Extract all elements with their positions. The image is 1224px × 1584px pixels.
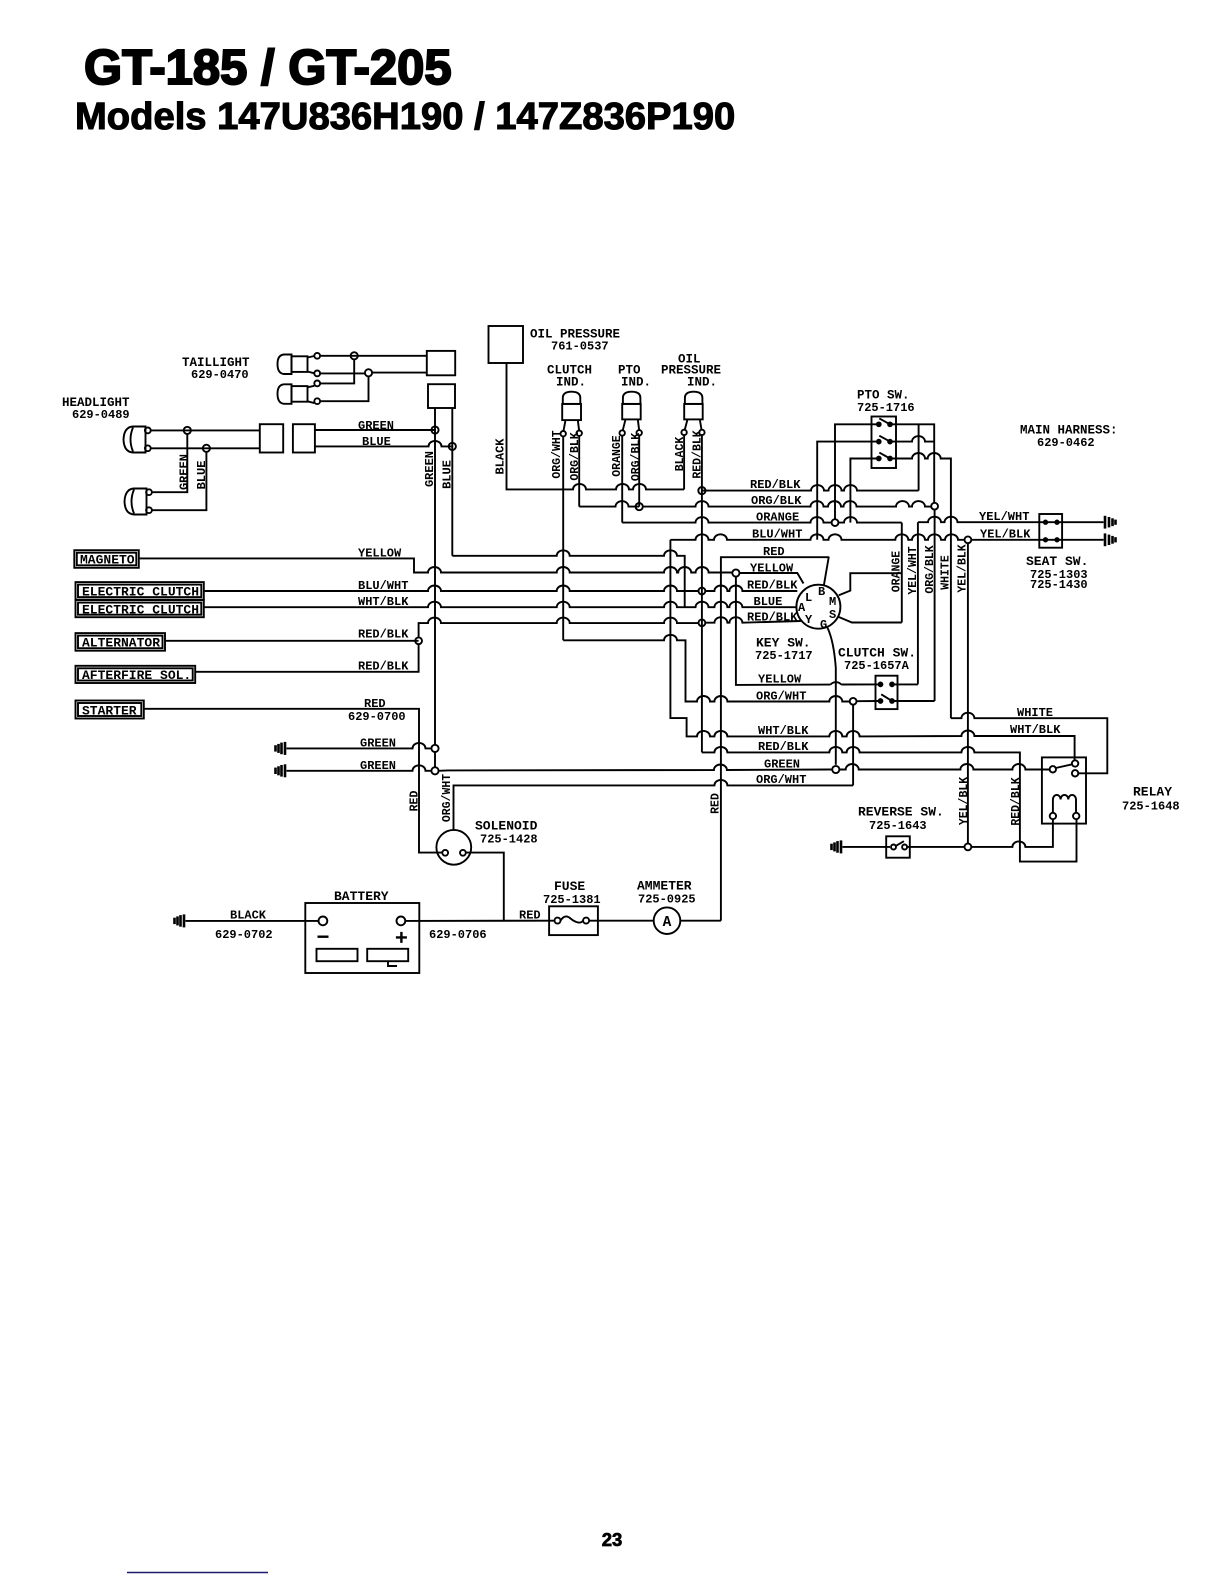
svg-text:RED/BLK: RED/BLK xyxy=(747,611,798,625)
battery minus sign xyxy=(318,936,329,938)
relay coil terminal right xyxy=(1073,813,1079,819)
lamp pto indicator xyxy=(618,364,651,390)
svg-text:A: A xyxy=(663,915,672,931)
bus BLU/WHT xyxy=(670,534,964,540)
wire red/blk riser to key bus xyxy=(419,618,699,638)
fuse box xyxy=(549,906,598,935)
wire blue feed vertical (taillight blue to blue bus) xyxy=(452,550,684,607)
wire GREEN 1 xyxy=(287,743,432,748)
taillight label xyxy=(182,356,250,382)
wire pto pole3 left to orange bus xyxy=(850,459,878,523)
wire GREEN vertical (taillight to green bus) xyxy=(434,408,436,767)
svg-text:ORG/BLK: ORG/BLK xyxy=(630,433,643,481)
lamp oil pressure indicator xyxy=(661,353,721,390)
svg-text:GREEN: GREEN xyxy=(178,454,192,490)
wire lamp1 right lead ORG/BLK xyxy=(578,436,580,507)
fuse label xyxy=(543,879,601,907)
ammeter label xyxy=(637,879,696,907)
wire RED/BLK lower bus (vert 702 to relay coil) xyxy=(702,747,1077,862)
svg-text:RELAY: RELAY xyxy=(1133,785,1172,800)
headlight lamp 1 xyxy=(124,427,146,453)
svg-text:RED/BLK: RED/BLK xyxy=(758,740,809,754)
relay coil xyxy=(1053,795,1076,813)
svg-text:629-0462: 629-0462 xyxy=(1037,436,1095,450)
wire ORG/WHT solenoid riser and lower bus xyxy=(454,780,854,830)
svg-text:BLUE: BLUE xyxy=(195,461,209,490)
wire battery plus to fuse xyxy=(405,920,554,922)
svg-text:RED/BLK: RED/BLK xyxy=(747,579,798,593)
connector plug green 2 xyxy=(276,764,286,777)
svg-text:23: 23 xyxy=(602,1529,623,1550)
clutch switch arm xyxy=(881,694,892,701)
svg-text:G: G xyxy=(820,618,827,632)
seat switch box xyxy=(1039,514,1062,548)
headlight label xyxy=(62,396,130,422)
svg-text:IND.: IND. xyxy=(687,376,717,390)
label BLACK vertical lamp3 xyxy=(674,437,687,472)
wire green drop to headlight 2 xyxy=(152,434,187,492)
wire BLACK to battery xyxy=(186,920,319,922)
svg-text:ORG/WHT: ORG/WHT xyxy=(756,773,806,787)
svg-text:SEAT SW.: SEAT SW. xyxy=(1026,554,1088,569)
wire lamp2 left lead ORANGE xyxy=(621,436,623,523)
pto switch pole 3 xyxy=(877,457,881,461)
solenoid body xyxy=(436,830,471,865)
ammeter xyxy=(654,907,681,934)
connector taillight box B xyxy=(428,384,455,408)
wire lamp3 left lead BLACK xyxy=(683,435,685,489)
svg-text:629-0702: 629-0702 xyxy=(215,928,273,942)
relay contact white xyxy=(1072,770,1078,776)
svg-text:725-1717: 725-1717 xyxy=(755,649,813,663)
relay coil terminal left xyxy=(1050,813,1056,819)
wire pto pole2 left to blu/wht bus xyxy=(817,442,879,540)
wire pto pole1 right xyxy=(890,424,934,503)
wire taillight bottom xyxy=(320,372,427,375)
afterfire sol box xyxy=(76,666,196,683)
wire YEL/WHT vertical (seat bus to clutch switch) xyxy=(917,522,919,684)
wire BLUE horizontal from headlight connector xyxy=(315,441,452,447)
svg-text:L: L xyxy=(805,591,812,605)
label RED/BLK vertical lamp3 xyxy=(691,430,704,478)
pto switch pole 2 xyxy=(877,440,881,444)
label ORANGE vertical xyxy=(611,435,624,477)
wire YEL/BLK bus to seat switch xyxy=(971,539,1103,541)
svg-text:ORANGE: ORANGE xyxy=(756,511,799,525)
svg-text:RED: RED xyxy=(519,909,541,923)
wire YEL/BLK vertical (seat bus to reverse switch) xyxy=(967,543,969,843)
label ORG/BLK vertical xyxy=(569,432,582,480)
wire BLU/WHT from electric clutch 1 xyxy=(204,586,699,591)
battery cell rect 2 xyxy=(367,949,408,961)
node taillight top tap xyxy=(351,352,358,359)
wire RED from starter xyxy=(144,709,443,853)
svg-text:M: M xyxy=(829,595,836,609)
svg-text:BLACK: BLACK xyxy=(674,437,687,472)
svg-text:ORG/WHT: ORG/WHT xyxy=(551,430,564,478)
svg-text:YEL/BLK: YEL/BLK xyxy=(957,544,970,592)
label GREEN xyxy=(358,419,394,433)
svg-text:B: B xyxy=(818,585,825,599)
svg-text:BLUE: BLUE xyxy=(362,435,391,449)
bus RED/BLK (lamp row) xyxy=(702,485,919,490)
svg-text:725-1657A: 725-1657A xyxy=(844,659,910,673)
wire fuse to ammeter xyxy=(589,920,654,922)
label BLUE xyxy=(362,435,391,449)
svg-text:S: S xyxy=(829,608,836,622)
bus ORANGE (lamp row) xyxy=(622,517,831,523)
svg-text:YELLOW: YELLOW xyxy=(358,546,402,560)
svg-text:RED/BLK: RED/BLK xyxy=(691,430,704,478)
label WHITE vertical xyxy=(939,555,952,590)
wire YEL/WHT bus to seat switch xyxy=(918,517,1104,523)
wire ORANGE vertical (orange bus to key M/S) xyxy=(901,523,903,623)
svg-text:RED/BLK: RED/BLK xyxy=(358,659,409,673)
svg-text:FUSE: FUSE xyxy=(554,879,585,894)
wire yellow bus to key L xyxy=(740,573,804,584)
wire reverse ground to switch xyxy=(843,846,891,848)
svg-text:RED/BLK: RED/BLK xyxy=(1010,777,1023,825)
battery cell rect 1 xyxy=(317,949,358,961)
wire RED/BLK from alternator xyxy=(165,640,419,642)
wire key M to orange vertical xyxy=(839,573,902,595)
electric clutch box 2 xyxy=(76,600,204,617)
alternator box xyxy=(76,633,166,651)
wire lamp3 right lead RED/BLK long vertical xyxy=(701,435,703,752)
node red/blk open junction xyxy=(699,588,706,595)
svg-text:ORG/BLK: ORG/BLK xyxy=(569,432,582,480)
svg-text:ORANGE: ORANGE xyxy=(611,435,624,477)
label GREEN vertical headlight xyxy=(178,454,192,490)
electric clutch box 1 xyxy=(76,582,204,600)
pto switch label xyxy=(857,389,915,416)
svg-text:Y: Y xyxy=(805,613,813,627)
wire taillight top xyxy=(320,355,427,357)
label ORG/WHT vertical xyxy=(551,430,564,478)
oil pressure sender box xyxy=(489,326,524,363)
label BLUE vertical xyxy=(441,460,455,489)
main harness label xyxy=(1020,424,1118,451)
connector plug reverse ground xyxy=(832,840,842,853)
svg-text:WHITE: WHITE xyxy=(1017,706,1053,720)
wire BLU/WHT vertical path to WHT/BLK bus xyxy=(670,540,1074,761)
svg-text:BLUE: BLUE xyxy=(441,460,455,489)
footer rule xyxy=(127,1572,268,1574)
svg-text:725-1648: 725-1648 xyxy=(1122,800,1180,814)
wire YELLOW vertical and bus to clutch xyxy=(736,577,879,685)
node yel/blk tap xyxy=(965,536,972,543)
connector plug yel/wht xyxy=(1105,516,1116,529)
connector headlight box A xyxy=(260,424,283,452)
svg-text:ORG/BLK: ORG/BLK xyxy=(924,545,937,593)
wire key G diagonal down xyxy=(827,628,835,765)
solenoid terminal left xyxy=(442,850,448,856)
label RED vertical starter xyxy=(408,791,421,812)
wire lamp2 right lead ORG/BLK xyxy=(638,436,640,507)
wire org/wht drop to lower bus xyxy=(852,705,854,786)
reverse switch label xyxy=(858,805,944,833)
node headlight green tap xyxy=(184,427,191,434)
wire BLACK from oil pressure box xyxy=(507,363,685,489)
wire key S to orange vertical xyxy=(838,617,902,623)
node blue junction xyxy=(449,443,456,450)
svg-text:725-1430: 725-1430 xyxy=(1030,578,1088,592)
relay box xyxy=(1042,757,1086,823)
svg-text:BATTERY: BATTERY xyxy=(334,889,389,904)
clutch switch bottom contacts xyxy=(879,699,883,703)
page number xyxy=(602,1529,623,1550)
relay arm xyxy=(1056,764,1073,768)
svg-text:WHITE: WHITE xyxy=(939,555,952,590)
svg-text:REVERSE SW.: REVERSE SW. xyxy=(858,805,944,820)
wire RED bus (to key B) and RED vertical to ammeter xyxy=(721,557,829,921)
svg-text:YEL/WHT: YEL/WHT xyxy=(907,546,920,594)
wire ORG/BLK vertical (pto to clutch switch) xyxy=(934,510,936,701)
key switch circle xyxy=(796,585,840,629)
wire headlight bottom (blue) xyxy=(151,447,260,449)
svg-text:725-1428: 725-1428 xyxy=(480,833,538,847)
svg-text:BLACK: BLACK xyxy=(230,908,267,922)
relay contact wht/blk xyxy=(1072,760,1078,766)
wire key B diagonal to RED bus xyxy=(824,557,829,586)
connector headlight box B xyxy=(293,424,315,452)
wire WHT/BLK from electric clutch 2 / BLUE bus xyxy=(204,602,797,607)
svg-text:STARTER: STARTER xyxy=(82,703,137,718)
label GREEN vertical xyxy=(423,451,437,487)
svg-text:WHT/BLK: WHT/BLK xyxy=(358,595,409,609)
svg-text:YEL/WHT: YEL/WHT xyxy=(979,510,1029,524)
svg-text:Models 147U836H190 / 147Z836P1: Models 147U836H190 / 147Z836P190 xyxy=(75,95,735,138)
wire pto pole2 right xyxy=(890,436,934,442)
headlight lamp 2 xyxy=(125,489,147,515)
svg-text:725-1716: 725-1716 xyxy=(857,401,915,415)
label BLACK vertical xyxy=(494,438,508,475)
connector plug green 1 xyxy=(276,742,286,755)
svg-text:WHT/BLK: WHT/BLK xyxy=(1010,723,1061,737)
clutch switch top contacts xyxy=(879,683,883,687)
svg-text:629-0706: 629-0706 xyxy=(429,928,487,942)
node green G junction xyxy=(832,766,839,773)
connector plug black battery xyxy=(175,914,185,927)
battery box xyxy=(305,903,419,973)
svg-text:629-0489: 629-0489 xyxy=(72,408,130,422)
svg-text:ORG/WHT: ORG/WHT xyxy=(756,689,806,703)
svg-text:RED: RED xyxy=(364,697,386,711)
node yellow junction xyxy=(732,569,739,576)
wire YELLOW from magneto xyxy=(139,558,733,572)
svg-text:ALTERNATOR: ALTERNATOR xyxy=(82,636,160,651)
bus ORG/BLK (lamp row) xyxy=(579,501,639,507)
node red/blk junction xyxy=(698,487,705,494)
solenoid terminal right xyxy=(460,850,466,856)
wire ammeter to red vertical xyxy=(680,920,721,922)
svg-text:ELECTRIC CLUTCH: ELECTRIC CLUTCH xyxy=(82,585,199,600)
wire yellow bus through clutch top to yel/wht vert xyxy=(892,683,918,686)
wire lamp1 left lead ORG/WHT xyxy=(562,436,564,640)
svg-text:GT-185 / GT-205: GT-185 / GT-205 xyxy=(84,41,452,95)
wire RED/BLK bus to key L xyxy=(705,586,797,591)
svg-text:SOLENOID: SOLENOID xyxy=(475,819,538,834)
svg-text:IND.: IND. xyxy=(556,376,586,390)
taillight bulb 1 xyxy=(278,355,292,375)
lamp clutch indicator xyxy=(547,364,592,390)
wire WHITE (vert corner to relay NC) xyxy=(951,713,1107,774)
wire RED/BLK from afterfire sol xyxy=(195,644,418,672)
taillight bulb 2 xyxy=(278,384,292,404)
svg-text:ORG/WHT: ORG/WHT xyxy=(441,774,454,822)
node org/wht clutch junction xyxy=(850,698,857,705)
wire yel/wht upper vertical (pole1 tap to red/blk bus) xyxy=(918,424,920,490)
starter box xyxy=(76,701,144,719)
svg-text:RED/BLK: RED/BLK xyxy=(750,478,801,492)
svg-text:GREEN: GREEN xyxy=(360,736,396,750)
page title xyxy=(75,41,735,138)
solenoid label xyxy=(475,819,538,847)
svg-text:AMMETER: AMMETER xyxy=(637,879,692,894)
node green2 junction xyxy=(431,767,438,774)
wire GREEN 2 (bus to relay) xyxy=(287,764,1050,771)
svg-text:BLACK: BLACK xyxy=(494,438,508,475)
wire headlight top (green) xyxy=(151,429,260,431)
wire pto pole3 right to white vertical xyxy=(890,453,951,718)
svg-text:ORANGE: ORANGE xyxy=(891,551,904,593)
svg-text:MAGNETO: MAGNETO xyxy=(80,553,135,568)
svg-text:RED: RED xyxy=(763,545,785,559)
pto switch pole 1 xyxy=(877,422,881,426)
svg-text:IND.: IND. xyxy=(621,376,651,390)
svg-text:GREEN: GREEN xyxy=(423,451,437,487)
svg-text:BLU/WHT: BLU/WHT xyxy=(358,579,408,593)
relay common contact xyxy=(1050,766,1056,772)
svg-text:629-0700: 629-0700 xyxy=(348,710,406,724)
svg-text:725-1643: 725-1643 xyxy=(869,819,927,833)
pto switch box xyxy=(872,417,897,469)
svg-text:YELLOW: YELLOW xyxy=(750,562,794,576)
node headlight blue tap xyxy=(203,445,210,452)
svg-text:ORG/BLK: ORG/BLK xyxy=(751,494,802,508)
svg-text:761-0537: 761-0537 xyxy=(551,340,609,354)
magneto box xyxy=(74,550,139,568)
connector plug yel/blk xyxy=(1105,533,1116,546)
wire reverse switch to relay coil xyxy=(907,846,964,848)
node org/blk to pto xyxy=(931,503,938,510)
svg-text:RED/BLK: RED/BLK xyxy=(358,627,409,641)
svg-text:RED: RED xyxy=(709,793,722,814)
wire blue drop to headlight 2 xyxy=(152,452,207,510)
label BLUE vertical headlight xyxy=(195,461,209,490)
node green junction xyxy=(431,426,438,433)
reverse switch box xyxy=(886,836,910,857)
svg-text:BLUE: BLUE xyxy=(754,595,783,609)
svg-text:725-1381: 725-1381 xyxy=(543,893,601,907)
battery terminal plus xyxy=(397,917,406,926)
svg-text:YEL/BLK: YEL/BLK xyxy=(958,777,971,825)
wire taillight top drop to bulb2 xyxy=(320,359,354,383)
svg-text:GREEN: GREEN xyxy=(358,419,394,433)
battery plus sign xyxy=(396,932,407,943)
connector taillight box A xyxy=(427,351,455,375)
svg-text:RED: RED xyxy=(408,791,421,812)
wire BLUE vertical (taillight to feed line) xyxy=(451,408,453,556)
battery terminal minus xyxy=(319,917,328,926)
wire taillight bottom drop to bulb2 xyxy=(320,376,368,401)
svg-text:GREEN: GREEN xyxy=(360,759,396,773)
wire ORG/WHT path (lamp1 to clutch bus) xyxy=(563,635,850,702)
svg-text:BLU/WHT: BLU/WHT xyxy=(752,528,802,542)
label ORG/BLK vertical lamp2 xyxy=(630,433,643,481)
wire org/wht junction to clutch contact xyxy=(857,700,879,702)
svg-text:GREEN: GREEN xyxy=(764,757,800,771)
svg-text:629-0470: 629-0470 xyxy=(191,368,249,382)
node red/blk open junction lower xyxy=(699,619,706,626)
clutch switch label xyxy=(838,646,916,674)
svg-text:YELLOW: YELLOW xyxy=(758,673,802,687)
battery label xyxy=(334,889,389,904)
wire clutch bottom right to org/blk vert xyxy=(892,700,935,702)
node alternator/afterfire junction xyxy=(415,637,422,644)
svg-text:AFTERFIRE SOL.: AFTERFIRE SOL. xyxy=(82,668,191,683)
node taillight bottom tap xyxy=(365,369,372,376)
svg-text:YEL/BLK: YEL/BLK xyxy=(980,527,1031,541)
wire GREEN horizontal from headlight connector xyxy=(315,429,435,431)
fuse element xyxy=(555,918,561,924)
svg-text:ELECTRIC CLUTCH: ELECTRIC CLUTCH xyxy=(82,602,199,617)
clutch switch box xyxy=(876,676,898,709)
node green1 junction xyxy=(431,745,438,752)
svg-text:WHT/BLK: WHT/BLK xyxy=(758,724,809,738)
wire pto pole1 left to orange bus xyxy=(835,424,879,519)
wire RED/BLK bus to key Y xyxy=(705,617,801,623)
wire solenoid right to fuse line xyxy=(466,853,504,921)
svg-text:725-0925: 725-0925 xyxy=(638,893,696,907)
